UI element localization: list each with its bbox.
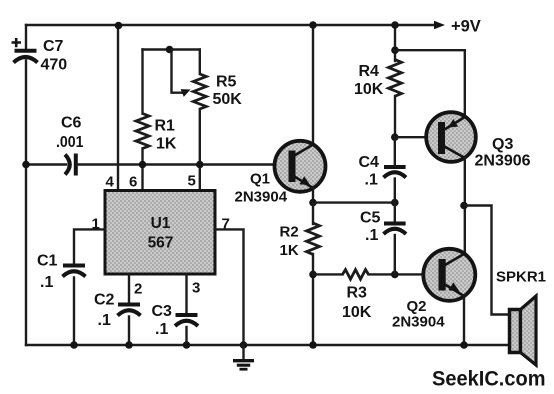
wire pin 4 supply	[117, 26, 119, 191]
svg-text:1K: 1K	[156, 136, 177, 153]
svg-text:R1: R1	[155, 118, 176, 135]
label Q1 2N3904	[235, 171, 288, 206]
label C1 value .1	[37, 253, 58, 292]
svg-text:6: 6	[129, 174, 137, 191]
wire to speaker top	[465, 206, 511, 315]
wire R4 lower lead	[394, 96, 396, 137]
wire C6 to Q1 base	[77, 163, 289, 165]
wire left rail upper	[25, 25, 27, 49]
node wiper tap	[166, 46, 174, 54]
svg-text:Q3: Q3	[492, 136, 513, 153]
label C5 value .1	[360, 210, 381, 245]
resistor R4	[389, 60, 402, 97]
wire R4 upper lead	[394, 25, 396, 61]
svg-text:10K: 10K	[342, 304, 372, 321]
arrow R5 wiper	[181, 89, 191, 97]
svg-text:1: 1	[92, 216, 100, 233]
node ground junction	[240, 341, 248, 349]
capacitor C7	[14, 51, 38, 63]
wire R3 left lead	[313, 273, 343, 275]
svg-text:SPKR1: SPKR1	[496, 269, 546, 286]
wire ground stem	[242, 345, 244, 360]
capacitor C4	[384, 167, 407, 178]
wire C5 lower lead	[394, 235, 396, 274]
wire R1-R5 top loop	[143, 48, 200, 50]
svg-text:SeekIC.com: SeekIC.com	[432, 368, 546, 391]
svg-text:R4: R4	[359, 63, 380, 80]
svg-text:R3: R3	[347, 285, 368, 302]
node speaker branch	[460, 202, 468, 210]
speaker SPKR1	[510, 296, 537, 365]
svg-text:5: 5	[188, 173, 196, 190]
node R3 C5 junction	[391, 271, 399, 279]
svg-text:7: 7	[222, 216, 230, 233]
wire top +9V rail	[26, 24, 434, 26]
wire Q1 emitter	[312, 188, 314, 203]
wire Q1 collector to rail	[312, 25, 314, 146]
wire R2 lower lead	[312, 254, 314, 345]
node C6 left rail	[22, 161, 30, 169]
transistor Q3	[426, 112, 476, 162]
label R3 value 10K	[342, 285, 372, 322]
wire R2 upper lead	[312, 203, 314, 224]
capacitor C3	[175, 315, 198, 326]
node pin4 top rail	[115, 22, 123, 30]
wire R1 to pin 6	[141, 149, 143, 191]
svg-text:Q2: Q2	[407, 298, 427, 315]
svg-text:2N3904: 2N3904	[392, 314, 445, 331]
wire R5 wiper	[172, 50, 183, 93]
node C3 rail	[183, 341, 191, 349]
node R4 top rail	[391, 21, 399, 29]
svg-text:C4: C4	[359, 154, 380, 171]
svg-text:567: 567	[148, 235, 174, 252]
capacitor C2	[118, 305, 141, 316]
label R5 value 50K	[213, 74, 243, 109]
wire C3 to rail	[185, 327, 187, 345]
label R2 value 1K	[280, 224, 299, 259]
svg-text:2N3904: 2N3904	[235, 189, 288, 206]
svg-text:U1: U1	[151, 215, 171, 232]
op-amp U1 567 tone decoder box	[105, 191, 215, 275]
wire left rail lower	[25, 61, 27, 346]
wire pin 2	[128, 274, 130, 303]
node pin6 junction	[139, 161, 147, 169]
svg-text:C5: C5	[360, 210, 381, 227]
resistor R1	[136, 114, 149, 149]
svg-text:4: 4	[106, 174, 115, 191]
label R4 value 10K	[354, 63, 384, 98]
label C4 value .1	[359, 154, 380, 189]
wire R1 pin6 branch upper	[141, 50, 143, 114]
svg-text:C3: C3	[152, 303, 173, 320]
capacitor C5	[384, 224, 407, 235]
power arrow +9V	[434, 21, 445, 30]
ground	[233, 361, 254, 370]
svg-text:.1: .1	[365, 227, 378, 244]
svg-text:R5: R5	[216, 74, 237, 91]
svg-text:.1: .1	[365, 172, 378, 189]
capacitor C6	[65, 154, 76, 176]
svg-text:2N3906: 2N3906	[475, 153, 531, 170]
node C4 C5 junction	[391, 199, 399, 207]
wire C1 to rail	[73, 278, 75, 346]
node C1 rail	[70, 341, 78, 349]
wire Q2 emitter to rail	[463, 296, 465, 345]
svg-text:470: 470	[41, 57, 68, 74]
svg-text:C7: C7	[43, 38, 64, 55]
wire C2 to rail	[128, 317, 130, 346]
resistor R5	[193, 74, 206, 109]
wire emitter junction to C4C5 node	[313, 201, 395, 203]
label U1 567	[148, 215, 174, 252]
node R2 R3 junction	[309, 271, 317, 279]
svg-text:50K: 50K	[213, 91, 243, 108]
svg-text:10K: 10K	[354, 81, 384, 98]
svg-text:Q1: Q1	[250, 171, 270, 188]
svg-text:C6: C6	[61, 115, 82, 132]
wire Q3 base	[395, 136, 438, 138]
svg-text:C2: C2	[94, 292, 115, 309]
capacitor C7 plus sign	[12, 38, 22, 47]
svg-text:.1: .1	[155, 321, 168, 338]
svg-text:1K: 1K	[280, 242, 299, 259]
node Q1 collector rail	[309, 21, 317, 29]
wire Q3 emitter supply	[395, 50, 465, 117]
wire R5 to pin 5	[199, 109, 201, 191]
node pin5 junction	[196, 161, 204, 169]
svg-text:3: 3	[192, 280, 200, 297]
wire bottom ground rail	[26, 344, 511, 346]
svg-text:.1: .1	[98, 312, 111, 329]
svg-text:R2: R2	[280, 224, 299, 241]
transistor Q2	[423, 249, 475, 301]
node Q2 emitter rail	[460, 341, 468, 349]
node R2 rail	[309, 341, 317, 349]
node Q1 emitter junction	[309, 199, 317, 207]
svg-text:+9V: +9V	[451, 18, 481, 36]
transistor Q1	[275, 141, 326, 192]
label C2 value .1	[94, 292, 115, 330]
label Q2 2N3904	[392, 298, 445, 331]
label C7 value 470	[41, 38, 68, 74]
wire C4 upper lead	[394, 137, 396, 165]
node Q3 emitter branch	[391, 46, 399, 54]
resistor R2	[307, 223, 320, 254]
label C6 value .001	[56, 115, 84, 152]
label Q3 2N3906	[475, 136, 531, 170]
wire R5 upper lead	[199, 50, 201, 75]
svg-text:.001: .001	[56, 134, 84, 151]
wire C5 upper lead	[394, 203, 396, 222]
label R1 value 1K	[155, 118, 177, 153]
wire pin 1	[74, 229, 105, 263]
label C3 value .1	[152, 303, 173, 338]
resistor R3	[343, 270, 369, 280]
wire R3 right lead to Q2 base	[369, 273, 439, 275]
node R4 Q3 base junction	[391, 133, 399, 141]
wire C6 input net	[26, 163, 66, 165]
wire pin 7	[215, 229, 244, 345]
svg-text:2: 2	[134, 281, 142, 298]
node C2 rail	[125, 341, 133, 349]
svg-text:.1: .1	[40, 274, 53, 291]
wire C4 lower lead	[394, 179, 396, 203]
wire Q3 collector to Q2 collector	[464, 158, 466, 254]
wire pin 3	[185, 274, 187, 313]
svg-text:C1: C1	[37, 253, 58, 270]
capacitor C1	[63, 266, 86, 277]
